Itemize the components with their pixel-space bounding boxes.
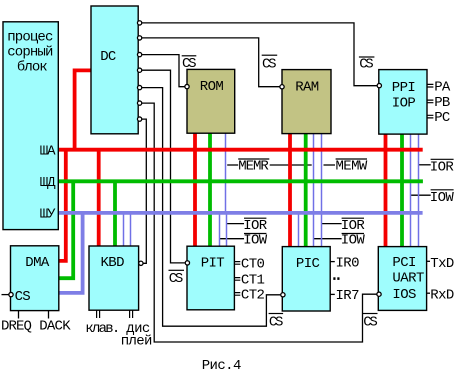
pin PCI CS <box>377 292 381 296</box>
pin RAM CS <box>280 85 284 89</box>
pin DC 4 <box>137 68 141 72</box>
svg-text:CT2: CT2 <box>241 287 265 303</box>
svg-text:IR0: IR0 <box>336 255 360 271</box>
wire DMA DACK stub <box>48 311 50 319</box>
svg-text:ROM: ROM <box>200 79 224 95</box>
wire KBD keyboard stub <box>97 310 100 318</box>
wire PIC IR0 stub <box>330 261 335 263</box>
wire DMA DREQ stub <box>18 311 20 319</box>
wire IOR branch into PIT <box>226 213 228 246</box>
svg-text:IOR: IOR <box>243 218 268 234</box>
wire IOR branch from PPI to PCI <box>418 134 420 247</box>
svg-text:MEMW: MEMW <box>336 159 368 175</box>
svg-text:UART: UART <box>392 270 424 286</box>
svg-text:DC: DC <box>100 49 116 65</box>
timer PIT <box>187 246 234 310</box>
wire control branch into KBD left <box>123 213 125 246</box>
wire address branch to KBD <box>97 150 101 246</box>
wire data branch to DMA <box>59 181 73 278</box>
svg-text:IOW: IOW <box>341 233 366 249</box>
wire IOR leader above PIT <box>227 223 245 225</box>
wire CS from DC pin3 to ROM <box>140 55 185 87</box>
wire MEMR leader left <box>227 164 238 166</box>
svg-text:CT0: CT0 <box>241 256 265 272</box>
pin DC 1 <box>137 21 141 25</box>
wire PIT CT1 stub <box>234 278 240 281</box>
wire DMA CS stub <box>2 294 10 296</box>
svg-text:CS: CS <box>363 314 378 330</box>
svg-text:ШД: ШД <box>40 175 56 191</box>
wire data branch to KBD <box>113 181 117 246</box>
pin DC 5 <box>137 85 141 89</box>
pin DC 2 <box>137 36 141 40</box>
wire CS from DC pin5 to PIC <box>140 88 281 327</box>
svg-text:PC: PC <box>434 110 450 126</box>
wire PCI RxD stub <box>427 292 430 294</box>
svg-text:RxD: RxD <box>430 287 454 303</box>
wire KBD display stub <box>130 310 133 318</box>
memory ROM <box>187 69 235 133</box>
svg-text:RAM: RAM <box>295 79 319 95</box>
svg-text:CS: CS <box>15 289 31 305</box>
bus ШД data <box>58 179 423 183</box>
memory RAM <box>282 70 331 134</box>
wire PPI PC stub <box>427 115 433 118</box>
wire CS from DC pin6 to PCI UART <box>140 103 377 342</box>
port PPI IOP <box>379 70 427 135</box>
svg-text:ШУ: ШУ <box>40 206 56 222</box>
svg-text:IOW: IOW <box>243 233 268 249</box>
label dots IR <box>333 277 335 280</box>
wire MEMR leader right <box>270 164 312 166</box>
wire CS from DC pin1 to PPI <box>140 23 377 86</box>
svg-text:PPI: PPI <box>392 80 416 96</box>
svg-text:PA: PA <box>434 79 451 95</box>
wire data branch ROM to PIT <box>208 133 212 246</box>
wire MEMR branch from RAM to PIC <box>313 134 315 247</box>
wire control branch to DMA <box>59 213 83 293</box>
wire address branch RAM to PIC <box>288 134 292 247</box>
svg-text:MEMR: MEMR <box>238 159 269 175</box>
pin PPI CS <box>377 83 381 87</box>
bus ША address <box>58 148 423 152</box>
wire IOW leader above PIT <box>220 238 245 240</box>
wire IOW branch into PIT <box>219 213 221 246</box>
wire data branch PPI to PCI <box>400 134 404 247</box>
svg-text:TxD: TxD <box>430 256 454 272</box>
svg-text:Рис.4: Рис.4 <box>202 358 242 374</box>
pin ROM CS <box>185 84 189 88</box>
svg-text:PCI: PCI <box>392 255 416 271</box>
wire IOR leader above PIC <box>322 223 342 225</box>
svg-text:PIC: PIC <box>296 256 320 272</box>
wire IOW branch from PPI to PCI <box>410 134 412 247</box>
pin KBD CS <box>139 261 143 265</box>
svg-text:DMA: DMA <box>25 255 50 271</box>
svg-text:IOS: IOS <box>392 287 416 303</box>
wire CS from DC pin4 to PIT <box>140 70 185 263</box>
wire CS from DC pin7 to KBD <box>140 119 147 263</box>
svg-text:IOW: IOW <box>430 190 455 206</box>
wire MEMW branch from RAM to PIC <box>321 134 323 247</box>
svg-text:плей: плей <box>121 333 153 350</box>
pin DMA CS <box>9 292 13 296</box>
svg-text:IOP: IOP <box>392 96 416 112</box>
svg-text:CS: CS <box>269 314 284 330</box>
pin DC 3 <box>137 52 141 56</box>
controller KBD <box>89 246 139 310</box>
wire IOW leader at PPI column <box>410 194 431 196</box>
pin DC 7 <box>137 117 141 121</box>
controller PIC <box>282 247 330 311</box>
svg-text:IOR: IOR <box>430 160 455 176</box>
wire IOR leader at PPI column <box>418 164 430 166</box>
wire MEMR branch from ROM <box>225 133 227 213</box>
decoder DC <box>91 6 138 134</box>
wire IOW leader above PIC <box>314 238 342 240</box>
bus ШУ control <box>58 211 423 215</box>
wire PCI TxD stub <box>427 260 430 262</box>
wire address branch to DMA <box>59 150 66 261</box>
wire PPI PB stub <box>427 100 433 103</box>
wire PIT CT2 stub <box>234 293 240 296</box>
wire control branch into PIC <box>298 213 300 247</box>
svg-text:CS: CS <box>262 56 277 72</box>
wire address from DC <box>75 70 92 149</box>
svg-text:ША: ША <box>40 144 56 160</box>
processor block <box>3 22 58 230</box>
controller DMA <box>11 246 59 311</box>
svg-text:PB: PB <box>434 95 450 111</box>
svg-text:процес: процес <box>7 30 53 46</box>
svg-text:DREQ: DREQ <box>1 318 32 334</box>
wire PIC IR7 stub <box>330 293 335 295</box>
svg-text:IR7: IR7 <box>336 288 360 304</box>
svg-text:CT1: CT1 <box>241 272 265 288</box>
wire PPI PA stub <box>427 84 433 87</box>
svg-text:сорный: сорный <box>7 44 53 61</box>
wire MEMW leader <box>324 164 336 166</box>
svg-text:DACK: DACK <box>39 318 71 334</box>
svg-text:клав.: клав. <box>85 321 120 337</box>
wire PIT CT0 stub <box>234 262 240 265</box>
svg-text:CS: CS <box>169 271 184 287</box>
svg-text:PIT: PIT <box>201 256 225 272</box>
wire address branch ROM to PIT <box>193 133 197 246</box>
svg-text:блок: блок <box>17 59 48 76</box>
svg-text:CS: CS <box>359 57 374 73</box>
wire data branch RAM to PIC <box>304 134 308 247</box>
wire CS from DC pin2 to RAM <box>140 38 280 87</box>
svg-text:KBD: KBD <box>101 255 125 271</box>
pin DC 6 <box>137 101 141 105</box>
pin PIC CS <box>281 293 285 297</box>
svg-text:IOR: IOR <box>341 218 366 234</box>
svg-text:CS: CS <box>182 56 197 72</box>
adapter PCI UART IOS <box>378 247 426 311</box>
pin PIT CS <box>185 261 189 265</box>
wire address branch PPI to PCI <box>384 134 388 247</box>
wire control branch into KBD right <box>130 213 132 246</box>
